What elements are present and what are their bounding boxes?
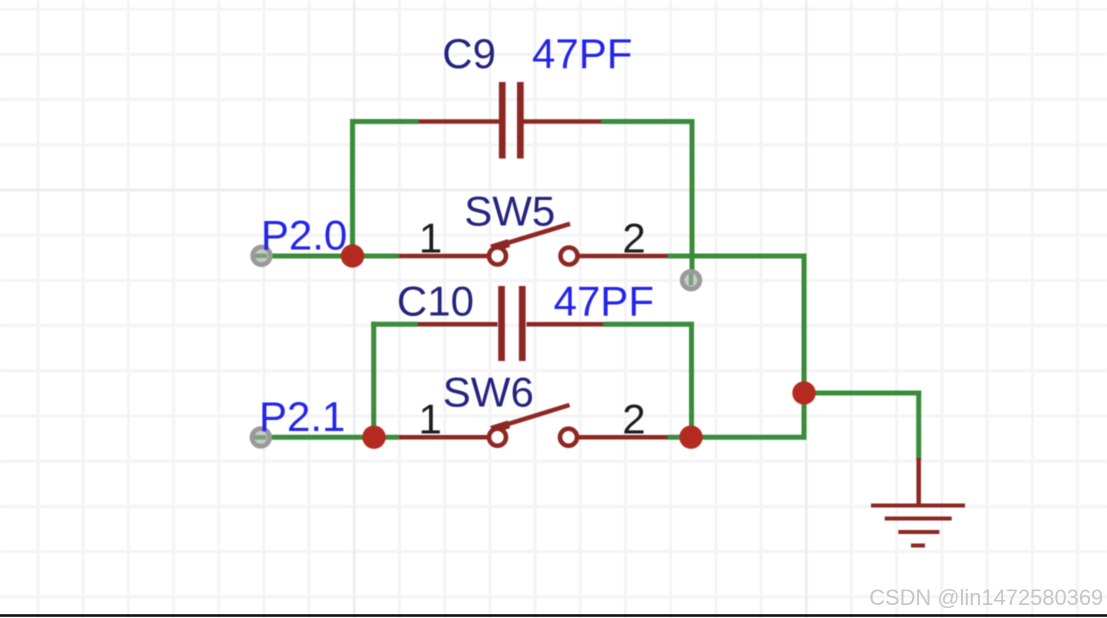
svg-text:P2.1: P2.1 xyxy=(259,393,345,440)
svg-text:C9: C9 xyxy=(442,30,496,77)
svg-text:P2.0: P2.0 xyxy=(261,212,347,259)
svg-text:SW5: SW5 xyxy=(464,188,555,235)
svg-text:CSDN @lin1472580369: CSDN @lin1472580369 xyxy=(869,585,1103,610)
svg-text:1: 1 xyxy=(419,214,442,261)
svg-text:C10: C10 xyxy=(397,278,474,325)
svg-text:SW6: SW6 xyxy=(443,369,534,416)
svg-text:47PF: 47PF xyxy=(532,30,632,77)
svg-text:47PF: 47PF xyxy=(554,278,654,325)
svg-text:1: 1 xyxy=(419,396,442,443)
svg-text:2: 2 xyxy=(622,396,645,443)
svg-text:2: 2 xyxy=(622,214,645,261)
